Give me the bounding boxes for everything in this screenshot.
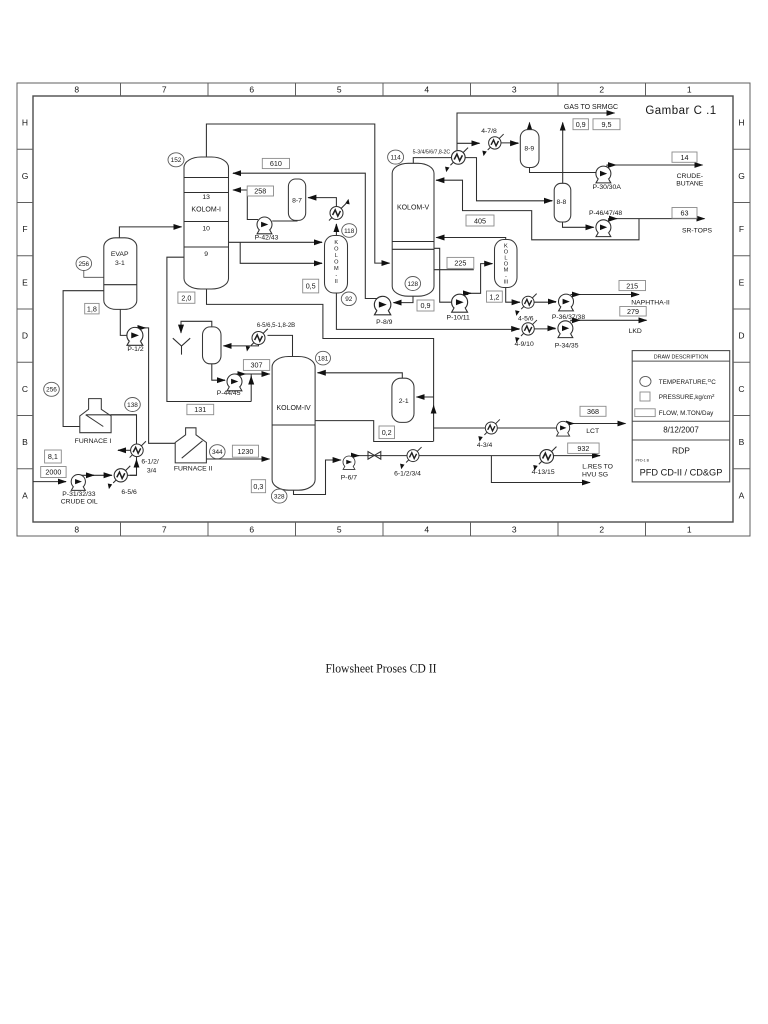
svg-text:1: 1 — [687, 524, 692, 534]
svg-text:932: 932 — [577, 444, 589, 453]
svg-text:6: 6 — [249, 85, 254, 95]
svg-text:5: 5 — [337, 85, 342, 95]
svg-text:H: H — [22, 118, 28, 128]
svg-text:2: 2 — [599, 524, 604, 534]
svg-text:TEMPERATURE,OC: TEMPERATURE,OC — [659, 378, 716, 386]
svg-text:D: D — [738, 331, 744, 341]
svg-text:G: G — [22, 171, 29, 181]
svg-text:GAS TO SRMGC: GAS TO SRMGC — [564, 104, 618, 111]
svg-text:8/12/2007: 8/12/2007 — [663, 426, 699, 435]
svg-text:KOLOM-I: KOLOM-I — [191, 206, 221, 213]
svg-text:256: 256 — [78, 261, 89, 268]
svg-text:3: 3 — [512, 85, 517, 95]
svg-text:L.RES TO: L.RES TO — [582, 464, 613, 471]
svg-text:181: 181 — [318, 356, 329, 363]
svg-text:4: 4 — [424, 85, 429, 95]
svg-text:L: L — [335, 253, 338, 259]
svg-text:4-5/6: 4-5/6 — [518, 316, 534, 323]
svg-text:3-1: 3-1 — [115, 260, 125, 267]
svg-text:307: 307 — [251, 361, 263, 370]
svg-text:0,9: 0,9 — [421, 301, 431, 310]
svg-text:KOLOM-V: KOLOM-V — [397, 205, 430, 212]
svg-text:SR-TOPS: SR-TOPS — [682, 228, 713, 235]
svg-text:2,0: 2,0 — [181, 293, 191, 302]
svg-text:P-10/11: P-10/11 — [447, 315, 471, 322]
svg-text:1230: 1230 — [237, 447, 253, 456]
svg-text:256: 256 — [46, 387, 57, 394]
svg-text:P-30/30A: P-30/30A — [593, 184, 622, 191]
svg-text:5-3/4/5/6/7,8-2C: 5-3/4/5/6/7,8-2C — [413, 150, 451, 156]
svg-text:P-44/45: P-44/45 — [217, 390, 241, 397]
svg-text:P-36/37/38: P-36/37/38 — [552, 314, 585, 321]
svg-text:610: 610 — [270, 159, 282, 168]
svg-text:4-13/15: 4-13/15 — [532, 469, 555, 476]
svg-text:P-1/2: P-1/2 — [127, 346, 143, 353]
svg-text:NAPHTHA-II: NAPHTHA-II — [631, 299, 670, 306]
svg-text:KOLOM-IV: KOLOM-IV — [276, 405, 311, 412]
svg-text:344: 344 — [212, 449, 223, 456]
svg-text:PFD-1 B: PFD-1 B — [636, 459, 650, 463]
svg-text:2-1: 2-1 — [399, 398, 409, 405]
svg-text:III: III — [504, 280, 509, 286]
svg-text:9: 9 — [204, 251, 208, 258]
svg-text:279: 279 — [627, 307, 639, 316]
svg-text:368: 368 — [587, 407, 599, 416]
svg-text:1: 1 — [687, 85, 692, 95]
svg-text:92: 92 — [345, 296, 353, 303]
svg-text:4-9/10: 4-9/10 — [514, 341, 533, 348]
svg-text:13: 13 — [202, 194, 210, 201]
svg-text:328: 328 — [274, 494, 285, 501]
svg-text:C: C — [22, 384, 28, 394]
svg-text:3/4: 3/4 — [147, 467, 157, 474]
svg-text:4: 4 — [424, 524, 429, 534]
svg-text:4-3/4: 4-3/4 — [477, 442, 493, 449]
svg-text:63: 63 — [681, 209, 689, 218]
svg-text:EVAP: EVAP — [111, 251, 129, 258]
svg-text:9,5: 9,5 — [602, 120, 612, 129]
svg-text:K: K — [334, 240, 338, 246]
svg-text:H: H — [738, 118, 744, 128]
svg-text:P-34/35: P-34/35 — [555, 343, 579, 350]
svg-text:8-7: 8-7 — [292, 197, 302, 204]
svg-text:1,8: 1,8 — [87, 304, 97, 313]
svg-text:1,2: 1,2 — [489, 292, 499, 301]
svg-text:M: M — [334, 266, 339, 272]
svg-text:2000: 2000 — [45, 468, 61, 477]
svg-text:131: 131 — [194, 405, 206, 414]
svg-text:2: 2 — [599, 85, 604, 95]
svg-text:O: O — [334, 247, 339, 253]
svg-text:P-31/32/33: P-31/32/33 — [62, 491, 95, 498]
svg-text:114: 114 — [391, 155, 402, 162]
svg-text:6-1/2/3/4: 6-1/2/3/4 — [394, 471, 421, 478]
svg-text:P-6/7: P-6/7 — [341, 475, 357, 482]
svg-text:PFD CD-II / CD&GP: PFD CD-II / CD&GP — [640, 468, 723, 478]
svg-text:10: 10 — [202, 226, 210, 233]
svg-text:P-42/43: P-42/43 — [255, 235, 279, 242]
svg-text:258: 258 — [254, 187, 266, 196]
svg-text:CRUDE-: CRUDE- — [677, 173, 703, 180]
svg-text:E: E — [739, 277, 745, 287]
svg-text:CRUDE OIL: CRUDE OIL — [61, 499, 98, 506]
svg-text:3: 3 — [512, 524, 517, 534]
svg-text:B: B — [22, 437, 28, 447]
svg-text:8: 8 — [74, 524, 79, 534]
svg-text:PRESSURE,kg/cm2: PRESSURE,kg/cm2 — [659, 393, 715, 401]
svg-text:138: 138 — [127, 402, 138, 409]
svg-text:14: 14 — [681, 153, 689, 162]
svg-text:D: D — [22, 331, 28, 341]
svg-text:0,9: 0,9 — [576, 120, 586, 129]
svg-text:0,5: 0,5 — [306, 282, 316, 291]
svg-text:B: B — [739, 437, 745, 447]
svg-text:-: - — [335, 273, 337, 279]
svg-text:225: 225 — [454, 259, 466, 268]
svg-text:LKD: LKD — [629, 328, 642, 335]
svg-text:F: F — [739, 224, 744, 234]
svg-text:C: C — [738, 384, 744, 394]
svg-text:RDP: RDP — [672, 445, 690, 455]
svg-text:G: G — [738, 171, 745, 181]
svg-text:FURNACE I: FURNACE I — [75, 438, 112, 445]
svg-text:215: 215 — [626, 281, 638, 290]
svg-text:6: 6 — [249, 524, 254, 534]
svg-text:F: F — [22, 224, 27, 234]
svg-text:A: A — [22, 490, 28, 500]
svg-text:0,2: 0,2 — [382, 428, 392, 437]
svg-text:P-46/47/48: P-46/47/48 — [589, 210, 622, 217]
svg-text:118: 118 — [344, 228, 355, 235]
svg-text:Gambar C .1: Gambar C .1 — [645, 105, 716, 117]
svg-text:8,1: 8,1 — [48, 452, 58, 461]
svg-text:P-8/9: P-8/9 — [376, 319, 392, 326]
svg-text:6-1/2/: 6-1/2/ — [141, 459, 158, 466]
svg-text:8-8: 8-8 — [556, 199, 566, 206]
svg-text:0,3: 0,3 — [253, 482, 263, 491]
svg-text:A: A — [739, 490, 745, 500]
svg-text:DRAW DESCRIPTION: DRAW DESCRIPTION — [654, 354, 709, 360]
svg-text:128: 128 — [407, 281, 418, 288]
svg-text:405: 405 — [474, 217, 486, 226]
svg-text:6-5/6,5-1,8-2B: 6-5/6,5-1,8-2B — [257, 323, 295, 329]
svg-text:O: O — [334, 260, 339, 266]
svg-text:7: 7 — [162, 85, 167, 95]
svg-text:7: 7 — [162, 524, 167, 534]
svg-text:Flowsheet Proses CD II: Flowsheet Proses CD II — [326, 662, 437, 676]
svg-text:5: 5 — [337, 524, 342, 534]
svg-text:E: E — [22, 277, 28, 287]
svg-text:HVU SG: HVU SG — [582, 471, 608, 478]
svg-text:BUTANE: BUTANE — [676, 181, 704, 188]
svg-text:152: 152 — [171, 157, 182, 164]
svg-text:6-5/6: 6-5/6 — [121, 489, 137, 496]
svg-text:8-9: 8-9 — [524, 146, 534, 153]
svg-text:8: 8 — [74, 85, 79, 95]
svg-text:II: II — [335, 279, 339, 285]
svg-text:FLOW, M.TON/Day: FLOW, M.TON/Day — [659, 410, 714, 417]
svg-text:4-7/8: 4-7/8 — [481, 128, 497, 135]
svg-text:LCT: LCT — [586, 428, 599, 435]
svg-text:FURNACE II: FURNACE II — [174, 465, 213, 472]
